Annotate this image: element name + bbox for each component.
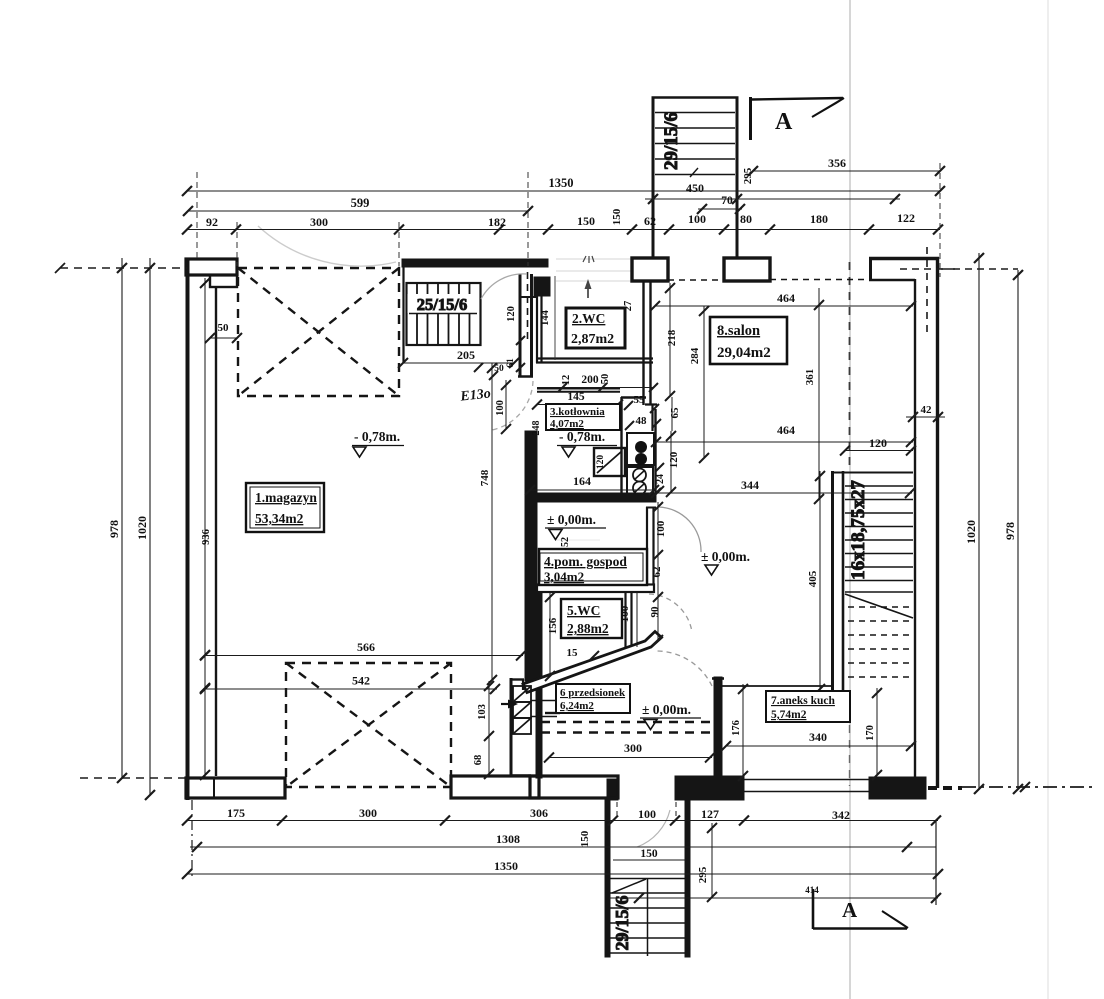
svg-text:748: 748 xyxy=(479,469,491,486)
wall: door dashes between piers xyxy=(668,279,724,281)
section marker A top xyxy=(751,97,845,140)
wall: top-left corner piece xyxy=(186,259,237,275)
svg-text:1020: 1020 xyxy=(135,516,149,540)
svg-text:70: 70 xyxy=(721,195,733,207)
dim: left vertical 978 xyxy=(107,258,127,783)
svg-text:50: 50 xyxy=(218,322,230,334)
svg-text:15: 15 xyxy=(567,647,579,659)
ghost lines left of entrance pier xyxy=(556,258,632,260)
room label: 4.pom. gospod xyxy=(539,549,647,585)
svg-text:90: 90 xyxy=(649,606,661,618)
wall: przedsionek east / T-pier xyxy=(714,677,722,777)
svg-text:566: 566 xyxy=(357,640,375,654)
svg-text:176: 176 xyxy=(731,720,742,736)
wall: bottom opening sill lines kitchen xyxy=(744,779,869,781)
svg-text:103: 103 xyxy=(477,704,488,720)
svg-text:± 0,00m.: ± 0,00m. xyxy=(642,702,691,717)
svg-text:120: 120 xyxy=(596,455,606,470)
svg-text:170: 170 xyxy=(865,725,876,741)
room label: 7.aneks kuch xyxy=(766,691,850,722)
svg-text:361: 361 xyxy=(804,369,816,386)
dim: 145 kotlownia xyxy=(532,391,623,410)
door arc: corridor to salon xyxy=(659,507,701,552)
svg-text:53,34m2: 53,34m2 xyxy=(255,511,304,526)
wall: kotlownia east niche xyxy=(621,397,656,493)
svg-text:29/15/6: 29/15/6 xyxy=(612,895,632,950)
svg-text:61: 61 xyxy=(506,358,516,368)
svg-text:12: 12 xyxy=(561,375,572,386)
wall: top band garage to vestibule xyxy=(402,259,548,267)
room label: 1.magazyn xyxy=(246,483,324,532)
dim: 450 segment xyxy=(645,181,900,204)
room label: 5.WC xyxy=(561,599,622,638)
dim chain: 92/300/182/150/62/100/80/180/122 xyxy=(182,211,943,235)
svg-text:1350: 1350 xyxy=(549,176,574,190)
dim: 748 rotated xyxy=(479,363,497,685)
dim: 70 segment xyxy=(697,195,745,214)
svg-text:65: 65 xyxy=(669,407,681,419)
dim: 218 rotated salon west xyxy=(665,283,678,401)
dim: 300 przedsionek xyxy=(544,741,715,763)
wall: bottom-left exterior band xyxy=(186,778,285,798)
wall: entrance door leaf dashed xyxy=(527,272,529,342)
svg-text:29/15/6: 29/15/6 xyxy=(661,112,682,170)
dim: 100 rotated WC5 door xyxy=(619,592,637,647)
svg-text:6,24m2: 6,24m2 xyxy=(560,700,594,712)
svg-text:144: 144 xyxy=(540,309,551,326)
dim: 344 xyxy=(651,478,915,498)
svg-text:8.salon: 8.salon xyxy=(717,323,760,339)
svg-text:150: 150 xyxy=(577,214,595,228)
kotlownia: hatched circles (cylinders) xyxy=(627,467,653,495)
dim: right vertical 978 xyxy=(1003,270,1023,794)
svg-text:5.WC: 5.WC xyxy=(567,603,600,618)
door arc: przedsionek to salon xyxy=(654,651,712,686)
wall: przedsionek diagonal wall solid xyxy=(523,632,662,693)
dashed eaves line over NE corner xyxy=(900,268,955,270)
svg-text:156: 156 xyxy=(547,617,559,634)
wall: salon north opening dashes xyxy=(770,279,869,281)
wall: salon east outer face xyxy=(936,257,939,788)
svg-text:68: 68 xyxy=(473,755,484,766)
wall: SE corner solid xyxy=(869,777,926,799)
wall: top-left 50cm return xyxy=(210,275,237,287)
svg-text:599: 599 xyxy=(351,196,370,210)
kotlownia: box with diagonal, 120 xyxy=(594,448,625,476)
dim chain: 1350 top xyxy=(182,176,945,196)
level marker: -0,78m kotlownia xyxy=(557,429,617,457)
wall: bottom T-pier solid xyxy=(675,776,744,800)
staircase: bottom exterior 29/15/6 xyxy=(605,799,690,957)
svg-text:464: 464 xyxy=(777,423,795,437)
wall: left dimension line 936 inside cavity xyxy=(204,278,206,778)
svg-text:100: 100 xyxy=(655,520,667,537)
svg-text:3.kotłownia: 3.kotłownia xyxy=(550,406,605,418)
level marker: +-0,00m salon xyxy=(701,549,750,575)
svg-text:295: 295 xyxy=(697,866,709,883)
wall: hall east jog above kotlownia xyxy=(645,404,657,431)
wall: entry recess west xyxy=(510,678,513,777)
room label: 3.kotlownia xyxy=(546,404,620,430)
przedsionek floor dashes xyxy=(541,722,714,733)
dim: 356 segment xyxy=(748,156,945,176)
dashed reference right top xyxy=(941,268,1018,270)
svg-text:42: 42 xyxy=(921,404,933,416)
wall: salon east inner face xyxy=(914,279,916,777)
wall: bottom wall mid piece hollow xyxy=(451,776,539,798)
dim: 42 wall step xyxy=(906,404,945,422)
svg-text:29,04m2: 29,04m2 xyxy=(717,345,771,361)
dim chain: 1350 bottom xyxy=(182,859,943,879)
wall: entrance pier left (hollow) xyxy=(632,258,668,281)
svg-text:205: 205 xyxy=(457,348,475,362)
level marker: +-0,00m corridor xyxy=(545,512,606,540)
room label: 8.salon xyxy=(710,317,787,364)
svg-text:6 przedsionek: 6 przedsionek xyxy=(560,687,626,699)
svg-text:145: 145 xyxy=(567,391,585,403)
dim: 150 inside stairwell xyxy=(613,848,686,860)
entry direction arrow xyxy=(501,700,518,709)
door arc: vestibule to garage xyxy=(481,274,527,299)
dash-dot extension below left corner xyxy=(191,800,193,878)
wall: WC5 east xyxy=(624,592,626,650)
garage door opening bottom-left: dashed box with X xyxy=(286,663,451,787)
wall: entrance pier right (hollow) xyxy=(724,258,770,281)
svg-text:295: 295 xyxy=(742,167,754,184)
dim: 284 rotated xyxy=(689,306,709,463)
dim: 164 kotlownia bottom xyxy=(525,474,659,495)
svg-text:2,88m2: 2,88m2 xyxy=(567,621,609,636)
garage door opening top: dashed box with X xyxy=(238,268,399,396)
svg-text:150: 150 xyxy=(579,830,591,847)
level marker: +-0,00m przedsionek xyxy=(640,702,701,730)
dim: 90 rotated xyxy=(649,592,663,645)
svg-text:978: 978 xyxy=(107,520,121,538)
svg-text:356: 356 xyxy=(828,156,846,170)
room label: 6 przedsionek xyxy=(556,684,630,713)
svg-text:25/15/6: 25/15/6 xyxy=(417,295,467,314)
wall: west wall of rooms 4,5 xyxy=(536,592,542,778)
svg-text:300: 300 xyxy=(624,741,642,755)
svg-text:100: 100 xyxy=(638,807,656,821)
dashed extension below bottom stairs door xyxy=(616,802,618,818)
svg-text:342: 342 xyxy=(832,808,850,822)
wall: vestibule west wall double line xyxy=(519,274,522,377)
svg-text:7.aneks kuch: 7.aneks kuch xyxy=(771,695,836,707)
svg-text:340: 340 xyxy=(809,730,827,744)
wall: pom.gospod east xyxy=(646,507,648,590)
svg-text:± 0,00m.: ± 0,00m. xyxy=(547,512,596,527)
svg-text:542: 542 xyxy=(352,674,370,688)
dashed reference line left bottom xyxy=(80,777,186,779)
staircase: garage 25/15/6 xyxy=(407,283,481,345)
svg-text:24: 24 xyxy=(655,474,666,484)
dim: 464 salon mid xyxy=(651,423,916,447)
svg-text:4.pom. gospod: 4.pom. gospod xyxy=(544,554,627,569)
svg-text:120: 120 xyxy=(869,436,887,450)
svg-text:200: 200 xyxy=(581,374,599,386)
svg-text:92: 92 xyxy=(206,215,218,229)
svg-text:3,04m2: 3,04m2 xyxy=(544,569,584,584)
right end vertical connector xyxy=(935,820,937,905)
svg-text:- 0,78m.: - 0,78m. xyxy=(354,429,400,444)
svg-text:120: 120 xyxy=(506,306,517,322)
wall: WC2 east / hall west xyxy=(642,280,644,405)
svg-text:218: 218 xyxy=(666,329,678,346)
dim: 542 xyxy=(200,674,500,695)
wall: vestibule west jamb xyxy=(402,266,404,363)
kitchen boundary line xyxy=(722,685,831,687)
dim: 566 xyxy=(200,640,526,661)
entrance small arrow at top door xyxy=(583,256,594,298)
svg-text:A: A xyxy=(842,898,858,922)
svg-text:5,74m2: 5,74m2 xyxy=(771,709,807,721)
dim: 100 rotated corridor door xyxy=(653,502,667,560)
svg-text:284: 284 xyxy=(689,347,701,364)
dim: 156 rotated WC5 xyxy=(545,592,559,681)
door arc: garage top opening xyxy=(258,226,396,266)
door arc: hall to magazyn xyxy=(492,381,533,430)
kotlownia: boiler black circles xyxy=(627,433,654,465)
svg-text:182: 182 xyxy=(488,215,506,229)
staircase: top exterior 29/15/6 xyxy=(652,97,739,258)
svg-text:16x18,75x27: 16x18,75x27 xyxy=(848,480,869,580)
svg-text:1350: 1350 xyxy=(494,859,518,873)
svg-text:122: 122 xyxy=(897,211,915,225)
section trace vertical line A-A xyxy=(849,0,851,999)
dim: 103 and 68 rotated xyxy=(473,681,494,779)
extension lines dashed top xyxy=(197,163,940,277)
room label: 2.WC xyxy=(566,308,625,348)
wall: left exterior inner face xyxy=(215,286,217,776)
svg-text:300: 300 xyxy=(310,215,328,229)
wall: bottom door left jamb block xyxy=(607,779,618,800)
svg-text:80: 80 xyxy=(740,212,752,226)
ARTIFACTS xyxy=(556,0,1048,999)
svg-text:100: 100 xyxy=(688,212,706,226)
svg-text:300: 300 xyxy=(359,806,377,820)
wall: kotlownia south solid xyxy=(530,493,656,502)
wall: WC2 west xyxy=(536,292,538,363)
svg-text:100: 100 xyxy=(495,400,506,416)
svg-text:1.magazyn: 1.magazyn xyxy=(255,490,317,505)
dim: 361 rotated salon xyxy=(804,288,824,504)
dim: 170 rotated xyxy=(865,688,882,780)
dim: 176 rotated xyxy=(731,684,748,781)
svg-text:175: 175 xyxy=(227,806,245,820)
svg-text:50: 50 xyxy=(600,374,611,385)
svg-text:120: 120 xyxy=(668,451,680,468)
wall: salon NE corner top band xyxy=(869,257,939,261)
svg-text:164: 164 xyxy=(573,474,591,488)
wall: kotlownia north xyxy=(537,388,620,390)
door arc: bottom door to stairs xyxy=(637,810,670,847)
svg-text:62: 62 xyxy=(644,214,656,228)
svg-text:± 0,00m.: ± 0,00m. xyxy=(701,549,750,564)
dash-dot reference line bottom right xyxy=(962,786,1095,788)
dim: 120 rotated right of niche xyxy=(666,431,680,497)
svg-text:- 0,78m.: - 0,78m. xyxy=(559,429,605,444)
paper fold line right xyxy=(1047,0,1049,999)
dim: right vertical 1020 xyxy=(964,253,984,794)
entry steps hatched xyxy=(513,686,557,734)
dim: left vertical 1020 xyxy=(135,258,155,800)
svg-text:978: 978 xyxy=(1003,522,1017,540)
dashed reference line left top xyxy=(60,267,187,269)
svg-text:2.WC: 2.WC xyxy=(572,311,605,326)
svg-text:405: 405 xyxy=(807,570,819,587)
staircase: interior right 16x18,75x27 xyxy=(831,471,913,690)
dim: 100 rotated at hall door xyxy=(495,380,511,434)
svg-text:150: 150 xyxy=(640,848,658,860)
svg-text:2,87m2: 2,87m2 xyxy=(571,332,614,347)
dim line: 414 level xyxy=(609,885,941,903)
dim: 205 garage stair xyxy=(398,348,519,368)
svg-text:1020: 1020 xyxy=(964,520,978,544)
dim chain: 1308 xyxy=(190,832,936,852)
dim: 340 xyxy=(721,730,916,751)
svg-text:52: 52 xyxy=(560,537,571,547)
svg-text:936: 936 xyxy=(201,529,212,545)
svg-text:344: 344 xyxy=(741,478,759,492)
dim chain: 175/300/306/100/127/342 xyxy=(182,806,941,826)
svg-text:1308: 1308 xyxy=(496,832,520,846)
svg-text:A: A xyxy=(775,109,793,135)
svg-text:48: 48 xyxy=(636,415,648,427)
svg-text:450: 450 xyxy=(686,181,704,195)
dim: 62 rotated xyxy=(651,556,663,592)
door arc: hall to przedsionek xyxy=(649,594,692,632)
level marker: -0,78m magazyn xyxy=(352,429,404,457)
section marker A bottom xyxy=(813,889,908,929)
svg-text:127: 127 xyxy=(701,807,719,821)
svg-text:248: 248 xyxy=(531,421,542,436)
wall: WC2 south xyxy=(536,357,653,359)
dims kotlownia top: 12 200 50 xyxy=(537,374,658,392)
dim: 120 stair top xyxy=(840,436,916,456)
dim: 295 vertical xyxy=(697,823,717,902)
svg-text:55: 55 xyxy=(634,394,646,406)
wall: SE heavy dashed continuation xyxy=(928,786,962,790)
wall: pom.gospod south solid xyxy=(537,585,654,593)
wall: central wall magazyn/hall solid xyxy=(525,431,537,681)
svg-text:464: 464 xyxy=(777,291,795,305)
dim chain: 599 xyxy=(183,196,533,216)
wall: left exterior outer face xyxy=(186,258,190,800)
svg-text:150: 150 xyxy=(611,208,623,225)
dim: 405 rotated stair xyxy=(807,471,825,694)
dim: 464 salon top xyxy=(650,291,916,311)
svg-text:306: 306 xyxy=(530,806,548,820)
svg-text:62: 62 xyxy=(651,566,663,578)
dim: 50 top-left return xyxy=(205,322,242,343)
svg-text:180: 180 xyxy=(810,212,828,226)
